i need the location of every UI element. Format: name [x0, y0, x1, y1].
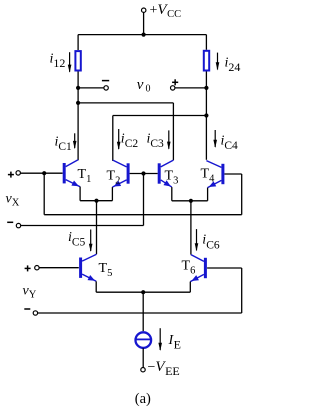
wire vY+ to T5 base: [39, 267, 79, 269]
label minus sign above - terminal: [102, 80, 109, 82]
wire cross-connect right node to T2 collector riser: [113, 115, 207, 117]
label iC2: [121, 132, 139, 150]
label vX input voltage: [6, 192, 20, 209]
vY - input terminal: [33, 311, 37, 315]
label T1: [78, 167, 92, 185]
label iC5: [68, 230, 86, 248]
wire right riser to T4 collector: [205, 116, 207, 160]
wire vX+ cross line to T4 base riser: [44, 214, 242, 216]
wire T6 base: [207, 267, 242, 269]
wire left tap to - output terminal: [78, 87, 104, 89]
label iC6: [202, 233, 220, 252]
wire right tap down to node: [205, 88, 207, 116]
-VEE supply terminal: [141, 368, 145, 372]
transistor T4: [206, 161, 223, 190]
transistor T6: [190, 255, 205, 284]
junction vX+ branch: [42, 171, 46, 175]
transistor T2: [112, 160, 128, 189]
wire T2/T3 base branch up: [143, 174, 145, 226]
transistor T1: [64, 160, 80, 189]
output terminal + (plus): [171, 86, 175, 90]
junction T1/T2 emitters: [94, 199, 98, 203]
label plus sign above + terminal: [172, 79, 178, 85]
label T4: [201, 167, 216, 185]
label i12: [50, 52, 66, 71]
wire T1/T2 emitter join: [80, 200, 112, 202]
wire left riser to T1 collector: [77, 103, 79, 160]
wire cross-connect left node to T3 collector riser: [78, 102, 173, 104]
label iC3: [147, 132, 165, 150]
wire vY- line: [38, 312, 242, 314]
wire T2 emitter down: [111, 187, 113, 201]
wire current source to -VEE terminal: [142, 348, 144, 367]
label minus sign vX: [7, 221, 13, 223]
arrow iC1 current: [73, 133, 77, 149]
label vY input voltage: [23, 284, 37, 301]
current source IE: [136, 332, 152, 348]
label IE: [168, 333, 182, 352]
wire vX- line: [21, 225, 144, 227]
wire T2 base to T3 base: [130, 173, 158, 175]
arrow i12 current: [68, 52, 72, 73]
wire T3/T4 emitters to T6 collector: [190, 201, 192, 255]
wire rail to right resistor: [205, 35, 207, 50]
arrow iC3 current: [167, 130, 171, 149]
wire T1/T2 emitters to T5 collector: [96, 201, 98, 255]
junction VCC rail: [142, 33, 146, 37]
wire T4 base riser: [241, 174, 243, 215]
resistor right collector load: [204, 51, 209, 71]
wire T3 emitter down: [171, 187, 173, 201]
junction right y116: [204, 113, 208, 117]
label T5: [99, 261, 113, 279]
junction T5/T6 emitters: [141, 290, 145, 294]
label iC1: [55, 135, 73, 153]
VCC rail wire: [78, 34, 206, 36]
wire vX+ branch down: [43, 173, 45, 215]
junction left y103: [76, 101, 80, 105]
transistor T3: [159, 160, 173, 189]
output terminal - (minus): [104, 86, 108, 90]
arrow iC2 current: [117, 129, 121, 150]
wire T6 emitter down: [189, 282, 191, 293]
label T6: [182, 259, 196, 277]
vY + input terminal: [35, 266, 39, 270]
wire T5 emitter down: [95, 281, 97, 292]
svg-text:(a): (a): [135, 391, 151, 407]
wire vX+ to T1 base: [20, 172, 62, 174]
arrow IE current: [158, 328, 162, 351]
wire left tap down to node: [77, 88, 79, 103]
caption (a): [135, 391, 151, 407]
label iC4: [221, 134, 239, 152]
junction T2/T3 base: [141, 171, 145, 175]
junction T3/T4 emitters: [189, 199, 193, 203]
wire T1 emitter down: [79, 187, 81, 201]
label -VEE: [148, 359, 180, 378]
wire right resistor to tap: [205, 72, 207, 88]
label i24: [225, 56, 241, 75]
wire T6 base riser: [241, 268, 243, 313]
label T2: [107, 169, 121, 187]
wire T3 collector riser: [172, 103, 174, 160]
wire emitters to current source: [142, 292, 144, 331]
label plus sign vX: [8, 172, 14, 178]
arrow i24 current: [216, 53, 220, 71]
wire T2 collector riser: [112, 116, 114, 162]
transistor T5: [81, 254, 97, 283]
+VCC supply terminal: [142, 8, 146, 12]
resistor left collector load: [75, 51, 80, 70]
arrow iC6 current: [195, 229, 199, 251]
junction right tap: [204, 86, 208, 90]
label T3: [165, 169, 179, 187]
vX + input terminal: [16, 171, 20, 175]
arrow iC5 current: [89, 230, 93, 253]
label vo output voltage: [137, 77, 151, 95]
arrow iC4 current: [213, 130, 217, 148]
label minus sign vY: [24, 308, 30, 310]
wire rail to left resistor: [77, 35, 79, 51]
wire T4 base: [224, 173, 241, 175]
wire T4 emitter down: [207, 188, 209, 201]
wire right tap to + output terminal: [175, 87, 207, 89]
wire T5/T6 emitter join: [96, 291, 190, 293]
label plus sign vY: [25, 265, 31, 271]
vX - input terminal: [16, 223, 20, 227]
wire left resistor to tap: [77, 72, 79, 88]
label +VCC: [150, 2, 182, 20]
wire VCC terminal to rail: [143, 12, 145, 34]
wire T3/T4 emitter join: [172, 200, 208, 202]
junction left tap: [76, 86, 80, 90]
